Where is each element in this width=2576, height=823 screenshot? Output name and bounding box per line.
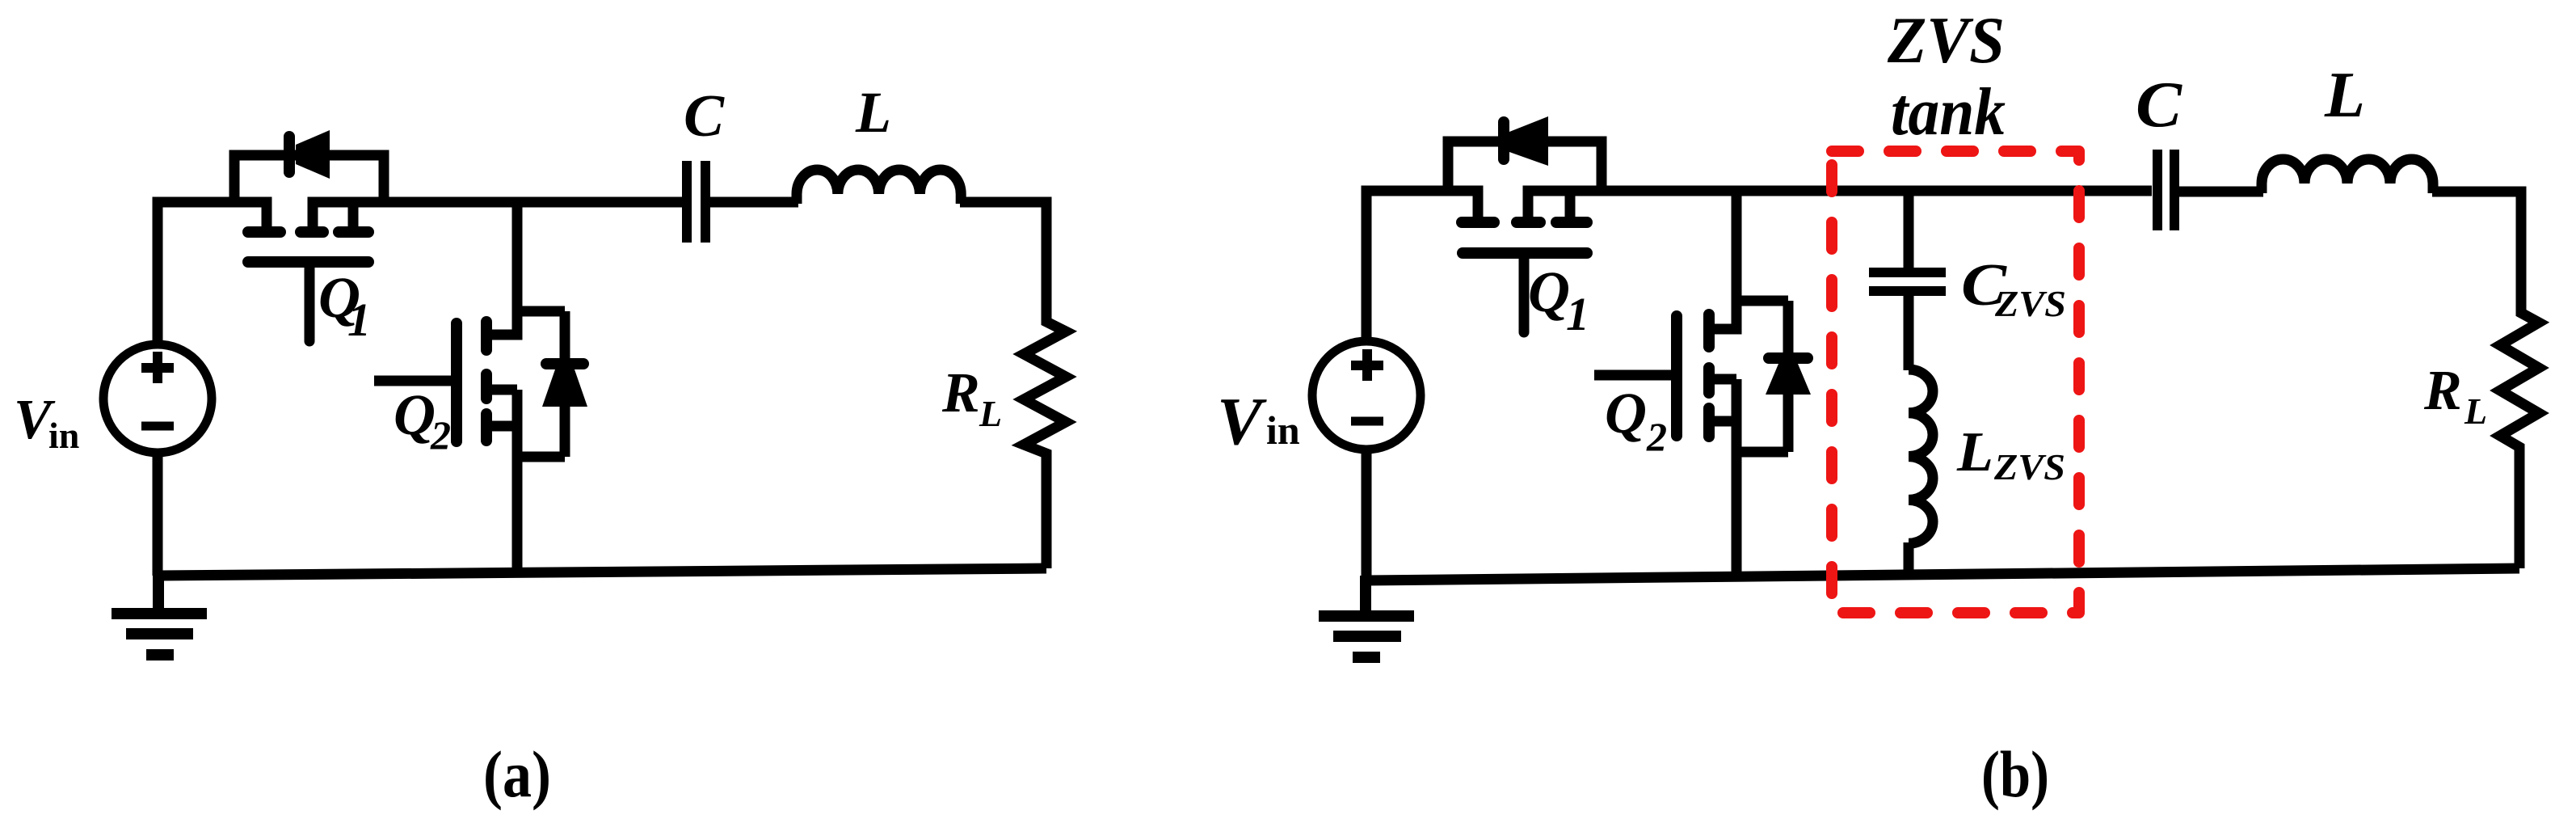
wire Q2 body-diode vertical	[560, 311, 570, 457]
source Vin plus sign (circuit b)	[1351, 349, 1383, 381]
source Vin minus sign	[141, 422, 174, 431]
capacitor CZVS top plate	[1869, 268, 1946, 277]
svg-text:2: 2	[1646, 414, 1667, 459]
transistor Q2 gate lead (circuit b)	[1594, 370, 1677, 381]
wire Q2 drain vertical with stub (circuit b)	[1709, 191, 1736, 329]
svg-text:V: V	[1217, 384, 1267, 459]
wire Q1 stub 3 (circuit b)	[1565, 191, 1576, 222]
transistor Q1 channel bar 2	[301, 226, 323, 238]
svg-text:L: L	[979, 393, 1002, 434]
source Vin circle (circuit a)	[103, 344, 212, 453]
diode D2 triangle (body diode of Q2)	[542, 369, 587, 407]
transistor Q2 channel bar middle (circuit b)	[1703, 368, 1715, 393]
capacitor C right plate (circuit b)	[2170, 150, 2179, 230]
diode D1 cathode bar (body diode of Q1, circuit b)	[1498, 122, 1509, 159]
diode D1 triangle (body diode of Q1)	[296, 130, 330, 179]
wire Q2 body-diode loop bottom	[517, 452, 565, 462]
svg-text:R: R	[2423, 360, 2462, 422]
source Vin plus sign	[141, 352, 174, 383]
ground symbol (circuit a)	[112, 571, 207, 655]
svg-text:ZVS: ZVS	[1887, 3, 2005, 77]
svg-text:ZVS: ZVS	[1993, 446, 2065, 487]
diode D1 triangle (body diode of Q1, circuit b)	[1509, 116, 1548, 166]
svg-text:1: 1	[1566, 288, 1589, 340]
wire Q2 body stub to source vertical (circuit b)	[1709, 374, 1736, 385]
wire Q2 body-diode loop top	[517, 306, 565, 317]
capacitor C right plate (circuit a)	[701, 161, 710, 243]
transistor Q1 gate bar (circuit b)	[1463, 247, 1587, 259]
svg-text:R: R	[941, 362, 980, 424]
svg-text:Q: Q	[1528, 260, 1570, 324]
wire Q2 source vertical to bottom rail (circuit b)	[1732, 379, 1742, 577]
capacitor C left plate (circuit b)	[2153, 150, 2162, 230]
wire Q2 drain vertical with stub (circuit a)	[486, 202, 517, 335]
ZVS tank red dashed box	[1832, 151, 2079, 613]
wire Q2 body-diode vertical (circuit b)	[1783, 301, 1794, 452]
wire ZVS tank branch from top rail	[1904, 191, 1914, 268]
svg-text:L: L	[2324, 60, 2365, 131]
transistor Q1 channel bar 1 (circuit b)	[1462, 217, 1494, 228]
wire capacitor C to inductor L (circuit b)	[2179, 187, 2263, 197]
wire capacitor C to inductor L (circuit a)	[710, 197, 798, 208]
ground symbol (circuit b)	[1319, 576, 1414, 657]
diode D1 cathode bar (body diode of Q1)	[284, 137, 295, 172]
wire Vin+ to top rail and into Q1 drain (circuit b)	[1366, 191, 1478, 344]
diode D2 triangle (body diode of Q2, circuit b)	[1766, 364, 1811, 395]
source Vin minus sign (circuit b)	[1351, 417, 1383, 426]
svg-text:Q: Q	[1605, 381, 1647, 445]
svg-text:(b): (b)	[1981, 737, 2049, 811]
svg-text:1: 1	[347, 293, 371, 346]
svg-text:(a): (a)	[483, 737, 551, 811]
svg-text:L: L	[1956, 421, 1993, 483]
transistor Q1 gate bar	[248, 256, 368, 268]
inductor LZVS	[1909, 369, 1933, 543]
transistor Q1 channel bar 1	[248, 226, 280, 238]
wire LZVS to bottom rail	[1904, 542, 1914, 576]
capacitor C left plate (circuit a)	[682, 161, 692, 243]
wire Q1 body-diode loop	[234, 155, 384, 207]
wire Q2 body stub to source vertical	[486, 385, 517, 395]
wire Q1 body-diode loop (circuit b)	[1448, 141, 1602, 196]
inductor L (circuit b)	[2262, 159, 2433, 193]
transistor Q1 gate lead	[305, 262, 315, 341]
svg-text:Q: Q	[394, 382, 436, 447]
wire inductor L to load corner (circuit b)	[2432, 192, 2539, 568]
capacitor CZVS bottom plate	[1869, 286, 1946, 296]
wire Q2 source bar stub	[486, 421, 517, 432]
transistor Q2 channel bar top	[481, 322, 492, 350]
wire bottom rail (circuit a)	[158, 568, 1046, 576]
diode D2 cathode bar (body diode of Q2, circuit b)	[1769, 352, 1808, 364]
svg-text:C: C	[2136, 70, 2183, 141]
transistor Q2 channel bar bottom	[481, 414, 492, 441]
source Vin circle (circuit b)	[1312, 341, 1421, 449]
transistor Q1 channel bar 2 (circuit b)	[1517, 217, 1540, 228]
svg-text:ZVS: ZVS	[1994, 283, 2066, 324]
wire Q1 source stub to top rail toward capacitor C (circuit b)	[1528, 191, 2152, 222]
transistor Q2 channel bar bottom (circuit b)	[1703, 408, 1715, 437]
svg-text:tank: tank	[1891, 74, 2006, 150]
wire Q2 source bar stub (circuit b)	[1709, 416, 1736, 427]
wire Q1 stub 3	[348, 202, 359, 232]
svg-text:2: 2	[430, 412, 451, 458]
wire Q2 source vertical to bottom rail (circuit a)	[512, 390, 523, 572]
wire Vin- lead (circuit a)	[153, 451, 163, 576]
transistor Q2 channel bar middle	[481, 374, 492, 399]
inductor L (circuit a)	[797, 170, 961, 204]
svg-text:C: C	[684, 83, 726, 150]
svg-text:in: in	[48, 415, 79, 456]
wire Vin+ to top rail and into Q1 drain (circuit a)	[158, 202, 267, 344]
transistor Q2 channel bar top (circuit b)	[1703, 314, 1715, 347]
wire inductor L to load corner (circuit a)	[960, 202, 1066, 568]
wire Q2 body-diode loop top (circuit b)	[1736, 296, 1788, 306]
wire Vin- lead (circuit b)	[1362, 448, 1372, 580]
svg-text:L: L	[855, 80, 891, 145]
wire bottom rail (circuit b)	[1366, 568, 2519, 580]
transistor Q2 gate lead	[374, 376, 457, 386]
wire CZVS to LZVS	[1904, 296, 1914, 370]
wire Q2 body-diode loop bottom (circuit b)	[1736, 447, 1788, 458]
transistor Q1 channel bar 3	[339, 226, 368, 238]
svg-text:in: in	[1266, 407, 1300, 453]
wire Q1 source stub to top rail toward capacitor C (circuit a)	[313, 202, 682, 232]
transistor Q1 gate lead (circuit b)	[1519, 253, 1530, 332]
transistor Q1 channel bar 3 (circuit b)	[1556, 217, 1587, 228]
svg-text:L: L	[2464, 390, 2487, 432]
transistor Q2 gate bar	[451, 323, 462, 441]
transistor Q2 gate bar (circuit b)	[1671, 316, 1682, 436]
diode D2 cathode bar (body diode of Q2)	[546, 358, 583, 369]
